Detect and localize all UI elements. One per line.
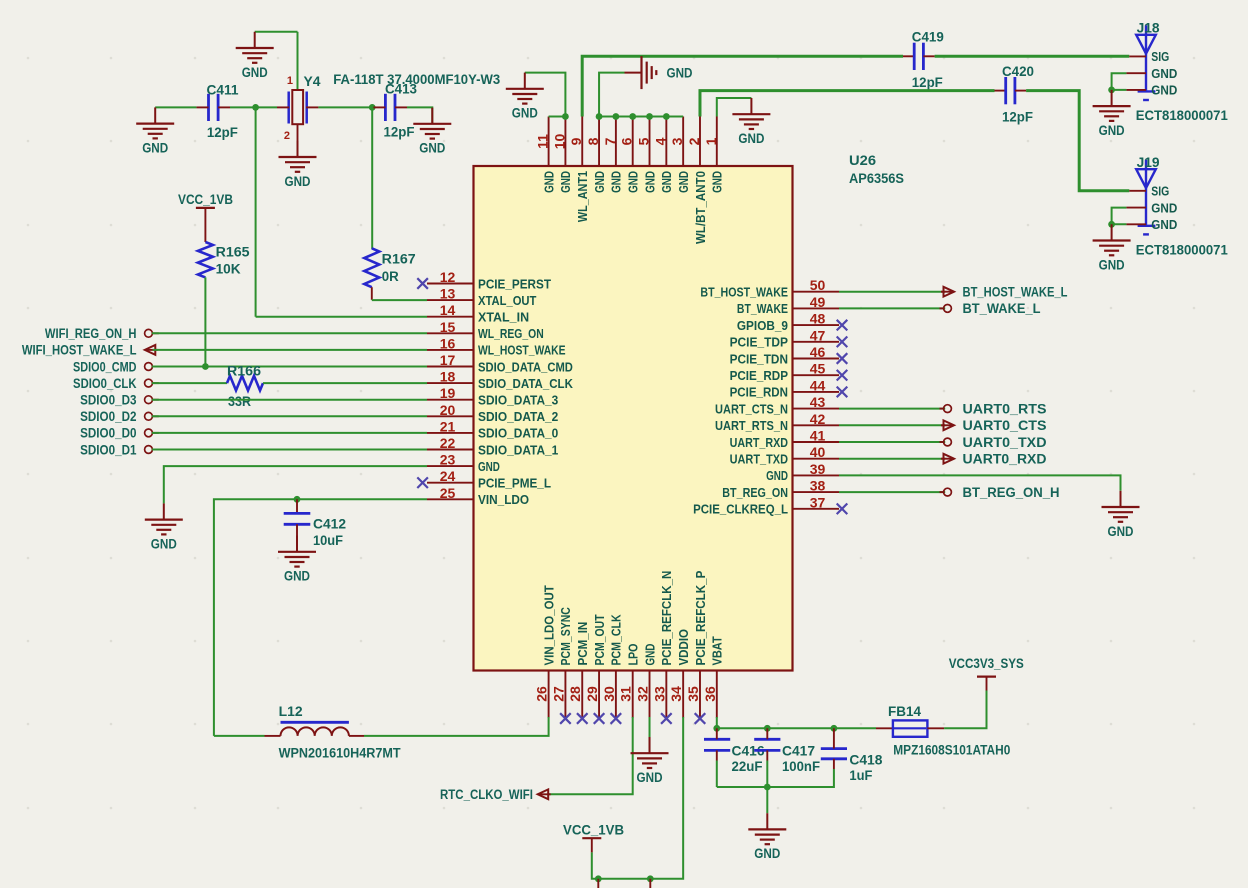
J18 pin SIG <box>1129 55 1146 57</box>
node XTAL_OUT junction <box>369 104 376 111</box>
svg-text:BT_HOST_WAKE: BT_HOST_WAKE <box>700 285 788 300</box>
svg-text:GND: GND <box>1151 200 1177 215</box>
pin 24 PCIE_PME_L (left) <box>427 482 474 484</box>
pin 18 SDIO_DATA_CLK (left) <box>427 382 474 384</box>
wire XTAL_IN vertical <box>255 107 257 316</box>
FB14 right pin <box>927 727 944 729</box>
svg-text:WL_ANT1: WL_ANT1 <box>575 171 590 222</box>
svg-text:GND: GND <box>541 171 556 193</box>
pin 41 UART_RXD (right) <box>793 441 840 443</box>
svg-text:PCIE_TDP: PCIE_TDP <box>730 335 789 350</box>
svg-text:GND: GND <box>592 171 607 193</box>
pin 50 BT_HOST_WAKE (right) <box>793 291 840 293</box>
no-connect pin 37 <box>837 504 848 515</box>
junction pin 10 <box>562 113 569 120</box>
power flag VCC_1VB bottom <box>591 839 593 853</box>
junction bottom rail <box>764 784 771 791</box>
svg-text:33R: 33R <box>228 394 251 409</box>
antenna J19 <box>1136 169 1156 188</box>
pin 21 SDIO_DATA_0 (left) <box>427 432 474 434</box>
svg-text:ECT818000071: ECT818000071 <box>1136 108 1228 123</box>
svg-text:R165: R165 <box>216 245 251 260</box>
wire FB14 to VCC3V3_SYS <box>944 691 986 729</box>
pin 35 PCIE_REFCLK_P (bottom) <box>699 671 701 718</box>
svg-text:26: 26 <box>534 686 550 702</box>
antenna J18 <box>1136 35 1156 54</box>
ground top-left <box>524 73 526 89</box>
pin 38 BT_REG_ON (right) <box>793 491 840 493</box>
wire pin 32 to ground <box>649 717 651 751</box>
pin 34 VDDIO (bottom) <box>682 671 684 718</box>
global label UART0_TXD <box>940 441 945 443</box>
wire crystal top to ground <box>297 32 299 90</box>
pin 31 LPO (bottom) <box>632 671 634 718</box>
svg-text:SDIO0_D0: SDIO0_D0 <box>80 426 136 441</box>
wire L12 to pin 26 <box>364 717 549 736</box>
svg-text:GND: GND <box>284 569 310 584</box>
ground below crystal <box>297 141 299 157</box>
pin 30 PCM_CLK (bottom) <box>615 671 617 718</box>
pin 14 XTAL_IN (left) <box>427 316 474 318</box>
svg-text:PCIE_CLKREQ_L: PCIE_CLKREQ_L <box>693 502 788 517</box>
svg-text:GND: GND <box>642 171 657 193</box>
svg-text:17: 17 <box>440 352 456 368</box>
wire WL/BT_ANT0 (pin 2) <box>700 91 995 117</box>
svg-text:12pF: 12pF <box>1002 110 1033 125</box>
svg-text:22uF: 22uF <box>732 759 763 774</box>
svg-text:VCC_1VB: VCC_1VB <box>563 823 624 838</box>
junction J18 gnd <box>1108 87 1115 94</box>
svg-text:7: 7 <box>602 137 618 145</box>
ground above crystal <box>255 31 298 33</box>
svg-text:31: 31 <box>618 686 634 702</box>
svg-text:3: 3 <box>669 137 685 145</box>
junction J19 gnd <box>1108 221 1115 228</box>
svg-text:GND: GND <box>626 171 641 193</box>
svg-text:45: 45 <box>810 361 826 377</box>
svg-text:GND: GND <box>1099 123 1125 138</box>
wire C419 to J18 <box>935 55 1130 58</box>
svg-text:41: 41 <box>810 428 826 444</box>
wire SDIO0_D0 <box>152 432 427 434</box>
svg-text:1: 1 <box>703 137 719 145</box>
svg-text:SIG: SIG <box>1151 184 1169 199</box>
svg-text:C417: C417 <box>782 744 815 759</box>
svg-text:8: 8 <box>585 137 601 145</box>
svg-text:12pF: 12pF <box>207 125 238 140</box>
svg-text:UART0_RTS: UART0_RTS <box>963 401 1047 416</box>
junction R165/SDIO0_CMD <box>202 363 209 370</box>
svg-text:GND: GND <box>512 106 538 121</box>
svg-text:VCC_1VB: VCC_1VB <box>178 192 233 207</box>
wire C411 to crystal <box>230 106 277 108</box>
wire UART0_CTS <box>839 424 945 426</box>
svg-text:VCC3V3_SYS: VCC3V3_SYS <box>949 656 1024 671</box>
ground pin 32 <box>649 737 651 753</box>
pin 13 XTAL_OUT (left) <box>427 299 474 301</box>
svg-text:GND: GND <box>242 65 268 80</box>
ground pin 39 <box>1120 491 1122 507</box>
no-connect pin 28 <box>577 713 588 724</box>
no-connect pin 48 <box>837 320 848 331</box>
svg-text:GND: GND <box>754 846 780 861</box>
svg-text:C419: C419 <box>912 30 944 45</box>
no-connect pin 35 <box>695 713 706 724</box>
svg-text:2: 2 <box>284 130 290 142</box>
svg-text:UART_RTS_N: UART_RTS_N <box>715 418 788 433</box>
capacitor C417 <box>754 738 780 741</box>
svg-text:33: 33 <box>651 686 667 702</box>
wire UART0_TXD <box>839 441 945 443</box>
svg-text:16: 16 <box>440 335 456 351</box>
svg-text:SDIO_DATA_0: SDIO_DATA_0 <box>478 426 558 441</box>
global label BT_WAKE_L <box>940 307 945 309</box>
svg-text:37: 37 <box>810 494 826 510</box>
pin 6 GND (top) <box>632 117 634 167</box>
C411 right pin <box>218 106 230 108</box>
ground top-middle (rotated) <box>625 72 642 74</box>
pin 25 VIN_LDO (left) <box>427 498 474 500</box>
wire SDIO0_CLK right <box>263 382 427 384</box>
pin 11 GND (top) <box>548 117 550 167</box>
J19 pin GND1 <box>1126 207 1146 209</box>
pin 4 GND (top) <box>665 117 667 167</box>
capacitor C416 <box>704 738 730 741</box>
global label BT_REG_ON_H <box>940 491 945 493</box>
svg-text:WL_REG_ON: WL_REG_ON <box>478 326 544 341</box>
svg-text:6: 6 <box>619 137 635 145</box>
pin 15 WL_REG_ON (left) <box>427 332 474 334</box>
svg-text:SDIO_DATA_2: SDIO_DATA_2 <box>478 409 558 424</box>
pin 47 PCIE_TDP (right) <box>793 341 840 343</box>
no-connect pin 47 <box>837 337 848 348</box>
wire WL_ANT1 (pin 9) <box>582 56 903 116</box>
resistor R165 <box>198 242 213 277</box>
crystal left pin <box>277 106 289 108</box>
svg-text:PCIE_RDN: PCIE_RDN <box>730 385 788 400</box>
svg-text:R167: R167 <box>382 252 416 267</box>
svg-text:GND: GND <box>642 644 657 666</box>
global label UART0_RXD <box>944 454 955 464</box>
svg-text:GND: GND <box>738 131 764 146</box>
pin 40 UART_TXD (right) <box>793 458 840 460</box>
crystal Y4 bottom pin <box>297 124 299 157</box>
J19 pin GND2 <box>1126 223 1146 225</box>
svg-text:VIN_LDO: VIN_LDO <box>478 492 529 507</box>
svg-text:32: 32 <box>635 686 651 702</box>
svg-text:PCM_OUT: PCM_OUT <box>592 614 607 665</box>
svg-text:36: 36 <box>702 686 718 702</box>
L12 right lead <box>349 735 364 737</box>
wire BT_WAKE_L <box>839 307 945 309</box>
svg-text:10K: 10K <box>216 262 241 277</box>
svg-text:29: 29 <box>584 686 600 702</box>
svg-text:BT_HOST_WAKE_L: BT_HOST_WAKE_L <box>963 285 1068 300</box>
svg-text:U26: U26 <box>849 153 877 168</box>
no-connect pin 30 <box>611 713 622 724</box>
svg-text:UART0_TXD: UART0_TXD <box>963 435 1047 450</box>
svg-text:GND: GND <box>1151 66 1177 81</box>
capacitor C412 <box>296 499 298 513</box>
wire VBAT down <box>716 717 718 728</box>
wire LPO <box>548 717 633 794</box>
svg-text:GND: GND <box>1099 257 1125 272</box>
capacitor C411 <box>207 94 210 121</box>
svg-text:RTC_CLKO_WIFI: RTC_CLKO_WIFI <box>440 787 533 802</box>
wire pin 23 to ground <box>164 466 427 503</box>
svg-text:SDIO0_D3: SDIO0_D3 <box>80 393 137 408</box>
wire cap bottom rail <box>717 779 834 787</box>
svg-text:GND: GND <box>637 770 663 785</box>
svg-text:J19: J19 <box>1137 155 1160 170</box>
svg-text:18: 18 <box>440 369 456 385</box>
svg-text:GND: GND <box>1108 524 1134 539</box>
svg-text:2: 2 <box>686 137 702 145</box>
J18 pin GND1 <box>1126 72 1146 74</box>
svg-text:44: 44 <box>810 377 826 393</box>
capacitor C419 <box>903 55 914 57</box>
svg-text:21: 21 <box>440 418 456 434</box>
svg-text:42: 42 <box>810 411 826 427</box>
svg-text:WIFI_REG_ON_H: WIFI_REG_ON_H <box>45 326 137 341</box>
svg-text:0R: 0R <box>382 269 399 284</box>
svg-text:10uF: 10uF <box>313 533 343 548</box>
svg-text:GND: GND <box>558 171 573 193</box>
pin 49 BT_WAKE (right) <box>793 307 840 309</box>
junction C412 <box>294 496 301 503</box>
global label BT_HOST_WAKE_L <box>944 287 955 297</box>
bottom white strip <box>0 888 1248 896</box>
wire top gnd rail pins 8-3 <box>599 116 683 118</box>
svg-text:C418: C418 <box>849 753 882 768</box>
node XTAL_IN junction <box>252 104 259 111</box>
svg-text:PCIE_PME_L: PCIE_PME_L <box>478 476 551 491</box>
ground VBAT caps <box>766 813 768 829</box>
svg-text:UART0_RXD: UART0_RXD <box>963 452 1047 467</box>
junction pin 5 <box>646 113 653 120</box>
resistor R166 <box>227 376 263 391</box>
svg-text:GND: GND <box>419 141 445 156</box>
svg-text:GND: GND <box>659 171 674 193</box>
svg-text:38: 38 <box>810 478 826 494</box>
no-connect pin 46 <box>837 353 848 364</box>
svg-text:J18: J18 <box>1137 20 1160 35</box>
ferrite bead FB14 <box>893 720 928 736</box>
svg-text:GND: GND <box>151 536 177 551</box>
wire R165 to SDIO0_CMD <box>204 277 206 366</box>
svg-text:12pF: 12pF <box>912 75 943 90</box>
ground pin 23 <box>163 503 165 519</box>
svg-text:VDDIO: VDDIO <box>676 629 691 666</box>
svg-text:UART0_CTS: UART0_CTS <box>963 418 1047 433</box>
C413 right pin <box>395 106 407 108</box>
pin 19 SDIO_DATA_3 (left) <box>427 399 474 401</box>
svg-text:GND: GND <box>609 171 624 193</box>
wire WL_HOST_WAKE <box>153 349 428 351</box>
wire SDIO0_CLK left <box>152 382 227 384</box>
power flag VCC3V3_SYS <box>986 677 988 691</box>
svg-text:PCM_CLK: PCM_CLK <box>609 614 624 666</box>
wire SDIO0_CMD <box>152 366 427 368</box>
ground C412 <box>296 536 298 552</box>
svg-text:BT_WAKE: BT_WAKE <box>737 301 788 316</box>
svg-text:SDIO0_D1: SDIO0_D1 <box>80 442 137 457</box>
inductor L12 <box>281 727 349 736</box>
wire R167 to pin 13 <box>372 299 427 301</box>
svg-text:GND: GND <box>1151 217 1177 232</box>
pin 46 PCIE_TDN (right) <box>793 358 840 360</box>
R167 bottom lead <box>371 287 373 300</box>
C413 left pin <box>373 106 385 108</box>
wire SDIO0_D2 <box>152 415 427 417</box>
wire pin 1 to ground <box>717 98 752 117</box>
svg-text:C413: C413 <box>385 82 417 97</box>
svg-text:14: 14 <box>440 302 456 318</box>
svg-text:23: 23 <box>440 452 456 468</box>
svg-text:SDIO0_D2: SDIO0_D2 <box>80 409 136 424</box>
wire VIN_LDO to L12 <box>214 735 265 737</box>
resistor R167 <box>364 248 379 287</box>
svg-text:WL_HOST_WAKE: WL_HOST_WAKE <box>478 343 566 358</box>
svg-text:UART_CTS_N: UART_CTS_N <box>715 401 788 416</box>
svg-text:49: 49 <box>810 294 826 310</box>
pin 32 GND (bottom) <box>649 671 651 718</box>
svg-text:BT_REG_ON_H: BT_REG_ON_H <box>963 485 1060 500</box>
svg-text:L12: L12 <box>279 704 303 719</box>
svg-text:22: 22 <box>440 435 456 451</box>
pin 8 GND (top) <box>598 117 600 167</box>
svg-text:PCIE_TDN: PCIE_TDN <box>730 351 788 366</box>
svg-text:GND: GND <box>667 65 693 80</box>
svg-text:C411: C411 <box>207 83 239 98</box>
svg-text:GND: GND <box>676 171 691 193</box>
wire pin 39 GND <box>839 475 1121 490</box>
svg-text:GND: GND <box>1151 83 1177 98</box>
crystal right pin <box>306 106 318 108</box>
svg-text:27: 27 <box>550 686 566 702</box>
svg-text:FB14: FB14 <box>888 704 921 719</box>
pin 48 GPIOB_9 (right) <box>793 324 840 326</box>
svg-text:SIG: SIG <box>1151 49 1169 64</box>
svg-text:GND: GND <box>710 171 725 193</box>
svg-text:WL/BT_ANT0: WL/BT_ANT0 <box>693 171 708 244</box>
no-connect pin 44 <box>837 387 848 398</box>
no-connect pin 45 <box>837 370 848 381</box>
svg-text:10: 10 <box>551 134 567 150</box>
no-connect pin 29 <box>594 713 605 724</box>
global label UART0_RTS <box>940 408 945 410</box>
junction VBAT a <box>713 725 720 732</box>
wire UART0_RXD <box>839 458 945 460</box>
global label RTC_CLKO_WIFI <box>538 789 549 799</box>
svg-text:WIFI_HOST_WAKE_L: WIFI_HOST_WAKE_L <box>22 343 137 358</box>
wire pins 11-10 to ground <box>549 116 566 118</box>
pin 5 GND (top) <box>649 117 651 167</box>
svg-text:VIN_LDO_OUT: VIN_LDO_OUT <box>541 585 556 665</box>
svg-text:24: 24 <box>440 468 456 484</box>
wire VIN_LDO <box>214 499 427 736</box>
pin 23 GND (left) <box>427 465 474 467</box>
svg-text:GND: GND <box>142 140 168 155</box>
wire J18 gnd <box>1112 73 1127 90</box>
svg-text:47: 47 <box>810 327 826 343</box>
svg-text:C420: C420 <box>1002 64 1034 79</box>
wire BT_HOST_WAKE_L <box>839 291 945 293</box>
wire WL_REG_ON <box>152 332 427 334</box>
ground right of C413 <box>431 108 433 124</box>
global label UART0_CTS <box>944 420 955 430</box>
crystal Y4 <box>287 92 290 124</box>
svg-text:SDIO_DATA_1: SDIO_DATA_1 <box>478 442 558 457</box>
pin 20 SDIO_DATA_2 (left) <box>427 415 474 417</box>
wire crystal to C413 <box>318 106 373 108</box>
wire stub down b <box>649 879 651 888</box>
svg-text:SDIO_DATA_3: SDIO_DATA_3 <box>478 393 558 408</box>
junction pin 4 <box>663 113 670 120</box>
pin 26 VIN_LDO_OUT (bottom) <box>548 671 550 718</box>
pin 37 PCIE_CLKREQ_L (right) <box>793 508 840 510</box>
J18 pin GND2 <box>1126 89 1146 91</box>
svg-text:SDIO0_CLK: SDIO0_CLK <box>73 376 137 391</box>
svg-text:11: 11 <box>535 134 551 149</box>
svg-text:13: 13 <box>440 286 456 302</box>
pin 33 PCIE_REFCLK_N (bottom) <box>665 671 667 718</box>
junction pin 8 <box>596 113 603 120</box>
svg-text:48: 48 <box>810 311 826 327</box>
pin 1 GND (top) <box>716 117 718 167</box>
junction VCC rail b <box>647 875 654 882</box>
wire J19 gnd <box>1112 208 1127 225</box>
svg-text:43: 43 <box>810 394 826 410</box>
svg-text:LPO: LPO <box>626 644 641 666</box>
svg-text:GPIOB_9: GPIOB_9 <box>737 318 788 333</box>
svg-text:ECT818000071: ECT818000071 <box>1136 243 1228 258</box>
svg-text:PCIE_RDP: PCIE_RDP <box>730 368 789 383</box>
wire XTAL_OUT vertical to R167 <box>371 107 373 249</box>
ground left of C411 <box>154 107 156 123</box>
svg-text:AP6356S: AP6356S <box>849 171 904 186</box>
svg-text:PCM_IN: PCM_IN <box>575 622 590 666</box>
svg-text:SDIO0_CMD: SDIO0_CMD <box>73 359 137 374</box>
svg-text:1: 1 <box>287 75 293 87</box>
svg-text:9: 9 <box>568 137 584 145</box>
svg-text:4: 4 <box>652 137 668 145</box>
svg-text:SDIO_DATA_CMD: SDIO_DATA_CMD <box>478 359 573 374</box>
svg-text:30: 30 <box>601 686 617 702</box>
pin 3 GND (top) <box>682 117 684 167</box>
pin 12 PCIE_PERST (left) <box>427 283 474 285</box>
pin 43 UART_CTS_N (right) <box>793 408 840 410</box>
wire gnd to C411 <box>155 106 196 108</box>
svg-text:WPN201610H4R7MT: WPN201610H4R7MT <box>279 745 402 760</box>
svg-text:XTAL_IN: XTAL_IN <box>478 310 529 325</box>
wire pin 8 to ground <box>599 73 624 117</box>
wire BT_REG_ON_H <box>839 491 945 493</box>
pin 2 WL/BT_ANT0 (top) <box>699 117 701 167</box>
wire XTAL_IN to pin 14 <box>256 316 427 318</box>
svg-text:34: 34 <box>668 686 684 702</box>
svg-text:25: 25 <box>440 485 456 501</box>
no-connect pin 27 <box>560 713 571 724</box>
svg-text:BT_REG_ON: BT_REG_ON <box>722 485 788 500</box>
junction VCC rail a <box>595 875 602 882</box>
pin 44 PCIE_RDN (right) <box>793 391 840 393</box>
pin 10 GND (top) <box>564 117 566 167</box>
pin 36 VBAT (bottom) <box>716 671 718 718</box>
svg-text:GND: GND <box>285 174 311 189</box>
svg-text:35: 35 <box>685 686 701 702</box>
svg-text:46: 46 <box>810 344 826 360</box>
